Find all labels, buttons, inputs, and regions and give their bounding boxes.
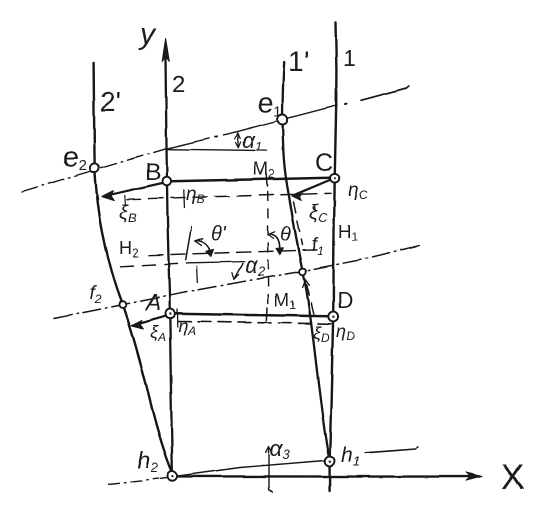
svg-text:h1: h1 (341, 444, 360, 469)
svg-text:M1: M1 (274, 290, 296, 312)
theta-prime slanted segment (186, 227, 192, 260)
y-axis arrowhead (162, 39, 169, 62)
svg-text:θ: θ (280, 224, 291, 246)
alpha3 marker (269, 448, 273, 493)
dash-dot axis through e2 (22, 149, 166, 192)
dashed arrow from D up to f1 (306, 283, 314, 314)
svg-text:M2: M2 (253, 159, 275, 181)
svg-text:D: D (337, 288, 353, 313)
y-axis line (line 2) (165, 48, 172, 471)
point D (328, 312, 338, 322)
svg-text:f2: f2 (90, 283, 102, 306)
svg-text:α2: α2 (245, 253, 266, 279)
dashed line below A-D (178, 322, 332, 324)
x-axis arrowhead (466, 472, 482, 480)
thin line through e1 (166, 138, 209, 148)
second horizontal dashed line y=263 (121, 263, 190, 267)
bottom thin line through h2 h1 (dash-dot left) (108, 479, 158, 484)
svg-text:B: B (145, 159, 161, 186)
dot on e1 line (345, 103, 347, 105)
xi_B arrow (105, 183, 163, 196)
theta-prime arc arrow (197, 241, 211, 255)
point e2 (90, 163, 99, 172)
xi_C arrow (296, 180, 331, 195)
svg-text:A: A (144, 290, 161, 315)
dashed line parallel to 1' above f1 (294, 202, 303, 245)
svg-text:2: 2 (172, 71, 185, 98)
short vertical dash near alpha2 (196, 266, 199, 283)
xi_B tick (124, 196, 127, 206)
svg-text:H1: H1 (338, 222, 358, 244)
eta_A tick (176, 310, 178, 328)
xi_C tick (314, 206, 317, 212)
x-axis (176, 475, 470, 478)
svg-text:C: C (315, 149, 333, 177)
svg-text:1': 1' (288, 46, 309, 77)
svg-text:e2: e2 (63, 141, 87, 174)
svg-text:f1: f1 (312, 235, 324, 258)
middle dash-dot axis through f2 f1 (54, 245, 423, 319)
M2 tick (265, 175, 268, 187)
svg-text:y: y (138, 18, 157, 51)
alpha1 reference line (167, 149, 267, 150)
svg-text:2': 2' (100, 86, 121, 117)
line 1 (330, 22, 337, 491)
svg-text:ηD: ηD (336, 321, 355, 343)
point f2 (120, 301, 127, 308)
svg-text:ξA: ξA (150, 322, 166, 344)
svg-text:h2: h2 (137, 447, 158, 475)
alpha2 arrow (235, 264, 243, 278)
curve 1' (283, 62, 330, 461)
vertical dashed line M2-M1 (267, 192, 268, 305)
point f1 (300, 268, 307, 275)
line B-C (171, 178, 330, 182)
point A (166, 309, 175, 318)
point e1 (278, 115, 288, 125)
eta_B tick (183, 190, 186, 208)
svg-text:α1: α1 (242, 128, 262, 154)
curve 2' (94, 63, 172, 472)
svg-text:α3: α3 (270, 436, 291, 462)
point h2 (168, 471, 178, 481)
svg-text:ηB: ηB (186, 184, 205, 206)
point B (163, 177, 172, 186)
alpha1 marker arrow (236, 135, 239, 147)
svg-text:ξC: ξC (309, 202, 328, 225)
svg-text:ξD: ξD (313, 323, 330, 345)
M1 tick (266, 308, 269, 321)
dash of e1 line (361, 86, 409, 100)
svg-text:1: 1 (343, 45, 356, 71)
svg-text:X: X (501, 458, 524, 497)
line A-D (174, 314, 328, 316)
svg-text:e1: e1 (258, 87, 282, 120)
horizontal dashed line y=253 (149, 250, 319, 255)
svg-text:ξB: ξB (119, 202, 137, 225)
xi_A arrow (136, 316, 166, 325)
theta arc arrow (270, 234, 280, 252)
svg-text:θ': θ' (211, 223, 227, 245)
horizontal dashed line y=198 (127, 193, 331, 199)
svg-text:ηA: ηA (178, 316, 196, 338)
svg-text:ηC: ηC (348, 180, 368, 202)
svg-text:H2: H2 (119, 238, 139, 260)
point C (330, 173, 339, 182)
point h1 (325, 456, 335, 466)
